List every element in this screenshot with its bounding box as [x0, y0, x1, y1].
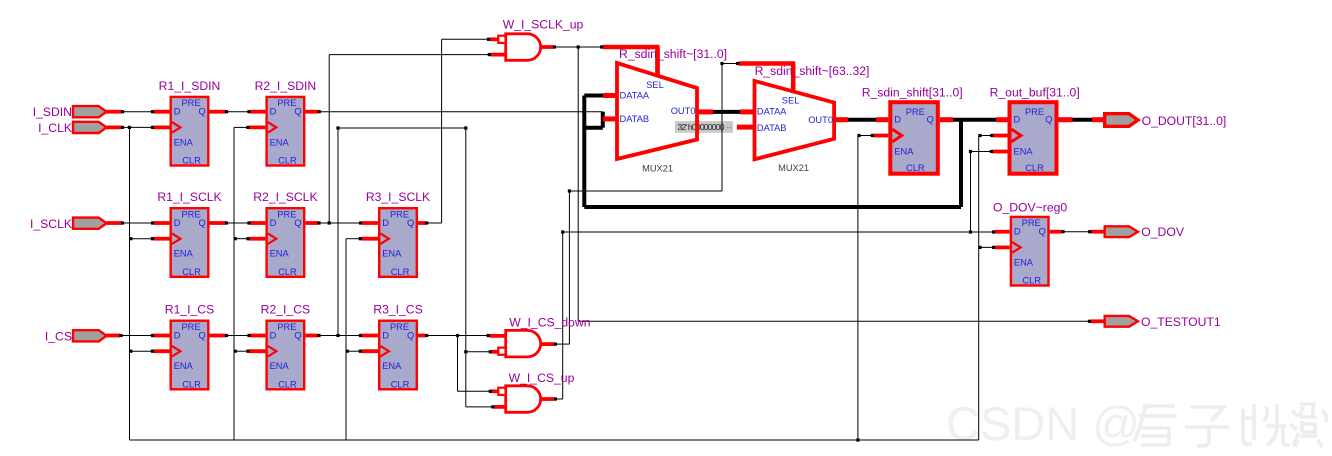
wire branch to W_I_CS_down.in2 (inverted)	[464, 350, 498, 353]
svg-text:PRE: PRE	[906, 107, 925, 117]
bus R_sdin_shift.Q to R_out_buf.D	[940, 117, 1008, 122]
svg-text:Q: Q	[407, 330, 414, 340]
svg-text:ENA: ENA	[382, 361, 402, 371]
flip-flop R3_I_SCLK	[379, 208, 417, 277]
svg-text:D: D	[382, 218, 389, 228]
svg-text:Q: Q	[198, 107, 205, 117]
svg-text:D: D	[1014, 115, 1021, 125]
svg-text:CLR: CLR	[391, 379, 410, 389]
wire W_I_CS_down output to MUX21#2 SEL	[541, 62, 796, 346]
svg-text:Q: Q	[1045, 115, 1052, 125]
wire R2_I_CS.Q bracket up over to W_I_CS gates	[336, 126, 467, 407]
flip-flop O_DOV~reg0	[1011, 217, 1049, 286]
svg-text:32' h00000000: 32' h00000000	[678, 122, 725, 132]
svg-text:R2_I_SCLK: R2_I_SCLK	[253, 190, 317, 204]
wire W_I_SCLK_up branch down to O_TESTOUT1	[577, 45, 1105, 323]
input pin I_SDIN	[73, 106, 107, 117]
svg-text:R_sdin_shift[31..0]: R_sdin_shift[31..0]	[862, 86, 963, 100]
svg-text:ENA: ENA	[270, 137, 290, 147]
svg-text:CLR: CLR	[182, 267, 201, 277]
svg-text:CLR: CLR	[182, 156, 201, 166]
wire R2_I_SDIN.Q to bus join at x=602.8	[305, 110, 602, 113]
svg-text:R3_I_CS: R3_I_CS	[373, 303, 422, 317]
svg-text:I_CS: I_CS	[45, 329, 72, 343]
svg-text:R1_I_SDIN: R1_I_SDIN	[159, 79, 221, 93]
flip-flop R1_I_CS	[171, 321, 209, 390]
and-gate W_I_SCLK_up	[506, 34, 541, 61]
mux U2 MUX21 R_sdin_shift~[63..32]	[755, 81, 835, 159]
flip-flop R_sdin_shift[31..0]	[890, 102, 938, 174]
bus R_out_buf.Q to O_DOUT pin	[1059, 117, 1105, 122]
flip-flop R2_I_SCLK	[267, 208, 305, 277]
flip-flop R_out_buf[31..0]	[1010, 102, 1057, 174]
svg-text:ENA: ENA	[1014, 147, 1034, 157]
wire I_CLK branch to R3_I_CS clock	[346, 350, 378, 353]
svg-text:D: D	[1014, 227, 1021, 237]
wire net I_SDIN: pin to R1_I_SDIN.D	[107, 110, 170, 113]
input pin I_CLK	[73, 122, 107, 133]
svg-text:I_SCLK: I_SCLK	[30, 217, 72, 231]
bus join for MUX21#1 DATAB (shift)	[584, 112, 617, 128]
wire R3_I_CS.Q to W_I_CS_down.in1	[418, 334, 506, 337]
and-gate W_I_CS_up	[506, 386, 541, 413]
flip-flop R1_I_SDIN	[171, 97, 209, 166]
svg-text:O_DOV~reg0: O_DOV~reg0	[993, 201, 1067, 215]
wire branch to W_I_CS_up.in2	[466, 405, 506, 408]
svg-text:W_I_CS_up: W_I_CS_up	[509, 371, 575, 385]
svg-text:Q: Q	[294, 218, 301, 228]
svg-text:CLR: CLR	[278, 379, 297, 389]
svg-text:O_DOUT[31..0]: O_DOUT[31..0]	[1142, 114, 1227, 128]
svg-text:DATAA: DATAA	[620, 90, 650, 100]
svg-text:D: D	[894, 115, 901, 125]
svg-text:R1_I_CS: R1_I_CS	[165, 303, 214, 317]
svg-text:DATAB: DATAB	[757, 123, 787, 133]
svg-text:DATAA: DATAA	[757, 107, 787, 117]
svg-text:ENA: ENA	[174, 361, 194, 371]
svg-text:D: D	[270, 330, 277, 340]
svg-text:O_DOV: O_DOV	[1141, 225, 1185, 239]
svg-text:R2_I_CS: R2_I_CS	[261, 303, 310, 317]
watermark CSDN @junzikaiyi	[946, 397, 1327, 450]
svg-text:CLR: CLR	[391, 267, 410, 277]
wire I_CLK branch to R2_I_CS clock	[234, 350, 266, 353]
svg-text:CLR: CLR	[1022, 276, 1041, 286]
svg-text:CLR: CLR	[906, 163, 925, 173]
wire R2_I_CS.Q to R3_I_CS.D	[305, 334, 378, 337]
svg-text:R_out_buf[31..0]: R_out_buf[31..0]	[990, 86, 1080, 100]
wire I_CLK bottom rail y=440	[130, 439, 979, 441]
svg-text:D: D	[174, 218, 181, 228]
svg-text:I_CLK: I_CLK	[38, 121, 72, 135]
svg-text:D: D	[382, 330, 389, 340]
wire net I_SCLK: pin to R1_I_SCLK.D	[107, 221, 170, 224]
and-gate W_I_CS_down	[506, 330, 541, 357]
svg-text:D: D	[174, 107, 181, 117]
svg-text:D: D	[270, 218, 277, 228]
svg-text:ENA: ENA	[1014, 257, 1034, 267]
svg-text:PRE: PRE	[1025, 107, 1044, 117]
wire I_CLK riser x=857.9 to R_sdin_shift clock	[856, 134, 888, 442]
svg-text:W_I_CS_down: W_I_CS_down	[509, 316, 590, 330]
svg-text:R_sdin_shift~[63..32]: R_sdin_shift~[63..32]	[755, 64, 870, 78]
wire I_CLK riser x=978.7 to R_out_buf and O_DOV~reg0 clocks	[978, 134, 1007, 440]
svg-text:R1_I_SCLK: R1_I_SCLK	[157, 190, 221, 204]
output pin O_DOV	[1105, 226, 1138, 237]
wire I_CLK branch to R2_I_SCLK clock	[234, 237, 266, 240]
wire R1_I_SDIN.Q to R2_I_SDIN.D	[210, 110, 266, 113]
output pin O_DOUT[31..0]	[1105, 114, 1138, 127]
constant 32h00000000	[675, 120, 733, 134]
wire O_DOV~reg0.Q to O_DOV pin	[1050, 230, 1105, 233]
svg-text:Q: Q	[1039, 227, 1046, 237]
wire R1_I_CS.Q to R2_I_CS.D	[210, 334, 266, 337]
bus feedback R_sdin_shift.Q down and left to MUX21#1 DATAA	[584, 96, 961, 208]
wire I_CLK branch to R1_I_CS clock	[129, 350, 169, 353]
svg-text:ENA: ENA	[270, 249, 290, 259]
wire W_I_SCLK_up output to MUX21#1 SEL	[541, 45, 660, 77]
wire R1_I_SCLK.Q to R2_I_SCLK.D	[210, 221, 266, 224]
wire I_CLK branch to R1_I_SCLK clock	[129, 237, 169, 240]
flip-flop R3_I_CS	[379, 321, 417, 390]
svg-text:CLR: CLR	[278, 156, 297, 166]
svg-text:D: D	[270, 107, 277, 117]
svg-text:OUT0: OUT0	[808, 115, 833, 125]
svg-text:R2_I_SDIN: R2_I_SDIN	[255, 79, 317, 93]
wire R2_I_SCLK.Q to R3_I_SCLK.D	[305, 221, 378, 224]
wire I_CLK riser x=234 to R2 column clocks	[233, 127, 235, 440]
wire I_CLK branch to O_DOV~reg0 clock	[978, 246, 1009, 249]
svg-text:CSDN @: CSDN @	[946, 397, 1140, 450]
svg-text:CLR: CLR	[278, 267, 297, 277]
wire I_CLK riser x=346 to R3 column clocks	[345, 239, 347, 440]
svg-text:ENA: ENA	[270, 361, 290, 371]
svg-text:--: --	[726, 122, 732, 132]
svg-text:MUX21: MUX21	[778, 163, 809, 173]
flip-flop R1_I_SCLK	[171, 208, 209, 277]
svg-text:W_I_SCLK_up: W_I_SCLK_up	[503, 18, 584, 32]
svg-text:CLR: CLR	[1025, 163, 1044, 173]
bus MUX21#2 OUT0 to R_sdin_shift.D	[834, 117, 888, 122]
wire net I_CS: pin to R1_I_CS.D	[107, 334, 170, 337]
svg-text:Q: Q	[927, 115, 934, 125]
svg-text:OUT0: OUT0	[671, 106, 696, 116]
svg-text:R3_I_SCLK: R3_I_SCLK	[366, 190, 430, 204]
svg-text:Q: Q	[198, 218, 205, 228]
svg-text:ENA: ENA	[174, 137, 194, 147]
svg-text:SEL: SEL	[646, 80, 664, 90]
svg-text:R_sdin_shift~[31..0]: R_sdin_shift~[31..0]	[619, 47, 727, 61]
output pin O_TESTOUT1	[1105, 316, 1138, 327]
svg-text:ENA: ENA	[174, 249, 194, 259]
svg-text:MUX21: MUX21	[642, 164, 673, 174]
wire R2_I_SCLK.Q branch up to W_I_SCLK_up.in2	[328, 53, 506, 225]
bus MUX21#1 OUT0 to MUX21#2 DATAA	[697, 109, 755, 114]
wire I_CLK vertical trunk x=129.5	[128, 126, 131, 440]
svg-text:CLR: CLR	[182, 379, 201, 389]
svg-text:DATAB: DATAB	[620, 114, 650, 124]
wire branch up to R_out_buf.ENA	[969, 150, 1008, 234]
svg-text:Q: Q	[198, 330, 205, 340]
flip-flop R2_I_CS	[267, 321, 305, 390]
input pin I_SCLK	[73, 218, 107, 229]
wire W_I_CS_up output to R_out_buf.ENA and O_DOV~reg0.D	[541, 230, 1010, 400]
svg-text:Q: Q	[294, 107, 301, 117]
svg-text:ENA: ENA	[382, 249, 402, 259]
svg-text:Q: Q	[294, 330, 301, 340]
svg-text:SEL: SEL	[782, 96, 800, 106]
wire net I_CLK: pin stub and horizontal to R1_I_SDIN clock	[107, 126, 170, 129]
svg-text:ENA: ENA	[894, 147, 914, 157]
wire I_CLK branch to R3_I_SCLK clock	[346, 237, 378, 240]
flip-flop R2_I_SDIN	[267, 97, 305, 166]
wire R3_I_SCLK.Q up to W_I_SCLK_up.in1 (inverted)	[418, 38, 498, 225]
svg-text:O_TESTOUT1: O_TESTOUT1	[1141, 315, 1221, 329]
input pin I_CS	[73, 330, 107, 341]
wire R3_I_CS.Q branch down to W_I_CS_up.in1 (inverted)	[456, 334, 498, 393]
mux U1 MUX21 R_sdin_shift~[31..0]	[617, 63, 697, 159]
svg-text:D: D	[174, 330, 181, 340]
wire I_CLK branch to R2_I_SDIN clock	[234, 126, 265, 129]
svg-text:Q: Q	[407, 218, 414, 228]
bus constant to MUX21#2 DATAB	[737, 125, 755, 130]
svg-text:I_SDIN: I_SDIN	[33, 105, 72, 119]
